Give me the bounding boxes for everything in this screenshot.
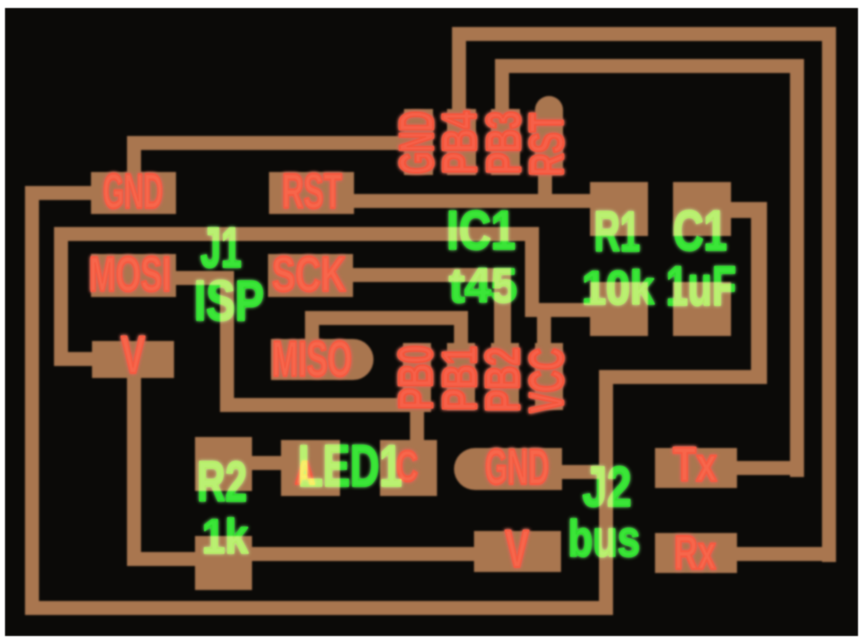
svg-text:V: V <box>505 520 529 579</box>
red pin labels <box>89 165 717 580</box>
pad IC GND <box>404 109 433 175</box>
pad IC PB4 <box>447 109 476 175</box>
svg-text:VCC: VCC <box>521 348 574 413</box>
pad IC PB1 <box>447 343 475 410</box>
wire GND J2 stub <box>562 465 602 479</box>
wire VCC down <box>525 227 539 317</box>
wire VCC jog <box>525 303 591 317</box>
svg-text:Tx: Tx <box>673 439 717 492</box>
svg-text:R1: R1 <box>594 200 640 264</box>
wire VCC trunk <box>54 227 68 366</box>
svg-text:1k: 1k <box>202 511 248 564</box>
svg-text:MOSI: MOSI <box>89 248 171 302</box>
wire PB2 riser <box>494 268 511 345</box>
wire GND left trunk <box>25 186 39 615</box>
green component labels <box>194 199 736 567</box>
wire MOSI down <box>220 271 234 412</box>
pad IC PB3 <box>491 109 520 175</box>
wire Rx stub <box>737 547 836 561</box>
svg-text:R2: R2 <box>197 450 247 514</box>
red vertical pin labels <box>390 111 574 413</box>
wire top inner horizontal <box>495 59 804 73</box>
pad J1 GND <box>91 172 176 214</box>
wire C1 top stub <box>731 202 753 218</box>
wire GND J1 left stub <box>25 186 91 200</box>
pad J2 Tx <box>655 448 737 488</box>
wire PB1 riser <box>454 311 468 345</box>
wire SCK horizontal <box>353 268 511 282</box>
wire GND wrap right vertical <box>751 202 767 384</box>
wire GND top horizontal to IC <box>127 136 433 150</box>
pad J1 MOSI <box>91 254 176 297</box>
wire VCC IC riser <box>537 303 551 345</box>
pad J1 SCK <box>268 254 353 297</box>
wire right inner vertical <box>790 59 804 477</box>
svg-text:t45: t45 <box>449 260 517 313</box>
wire MOSI horizontal <box>176 271 234 285</box>
svg-text:RST: RST <box>282 165 342 219</box>
pad C1 top <box>673 182 731 236</box>
pad IC PB2 <box>491 343 519 410</box>
pad R1 bottom <box>590 282 648 336</box>
pad J1 V <box>92 341 174 378</box>
pad IC VCC <box>535 343 563 410</box>
pad J2 Rx <box>655 533 737 573</box>
wire RST IC riser <box>538 173 552 208</box>
wire PB3 riser <box>495 59 509 111</box>
wire RST horizontal <box>354 194 590 208</box>
wire GND J1 top riser <box>127 136 141 174</box>
wire V J1 down riser <box>127 378 141 566</box>
svg-text:GND: GND <box>485 439 549 495</box>
svg-text:MISO: MISO <box>272 331 352 387</box>
pad J1 RST <box>269 172 354 214</box>
wire R2 to V J2 <box>252 547 476 561</box>
wire V J1 stub <box>54 352 94 366</box>
pad LED1 right <box>380 440 437 496</box>
pad IC RST <box>535 96 563 175</box>
pad R2 bottom <box>195 536 252 590</box>
svg-text:Rx: Rx <box>674 527 716 580</box>
wire GND bottom <box>25 601 613 615</box>
svg-text:10k: 10k <box>582 261 655 314</box>
wire LED1 to PB0 riser <box>410 398 424 442</box>
wire VCC long horizontal <box>54 227 539 241</box>
svg-text:SCK: SCK <box>272 248 346 302</box>
svg-text:1uF: 1uF <box>666 254 736 317</box>
wire PB4 riser <box>452 27 466 111</box>
svg-text:ISP: ISP <box>194 269 264 333</box>
pad C1 bottom <box>673 282 731 336</box>
wire MISO horizontal <box>305 311 468 325</box>
pad J1 MISO <box>271 339 373 380</box>
wire right outer vertical <box>822 27 836 562</box>
pad J2 GND <box>454 448 562 490</box>
wire Tx stub <box>737 461 804 475</box>
svg-text:LED1: LED1 <box>298 434 402 499</box>
svg-text:bus: bus <box>568 510 640 567</box>
pad LED1 left <box>281 440 340 496</box>
pad IC PB0 <box>403 343 431 410</box>
wire R2 to LED1 stub <box>251 456 283 470</box>
pad J2 V <box>474 531 561 572</box>
wire MOSI bottom horizontal <box>220 398 431 412</box>
pad R2 top <box>195 437 252 491</box>
wire GND right riser <box>599 370 613 615</box>
pad R1 top <box>590 182 648 236</box>
wire GND wrap top <box>599 370 766 384</box>
svg-text:IC1: IC1 <box>447 199 516 261</box>
wire V to R2 <box>127 552 196 566</box>
svg-text:GND: GND <box>103 165 163 219</box>
svg-text:RST: RST <box>521 113 574 176</box>
svg-text:V: V <box>121 326 145 385</box>
wire MISO stub up <box>305 311 319 341</box>
wire top outer horizontal <box>452 27 836 41</box>
